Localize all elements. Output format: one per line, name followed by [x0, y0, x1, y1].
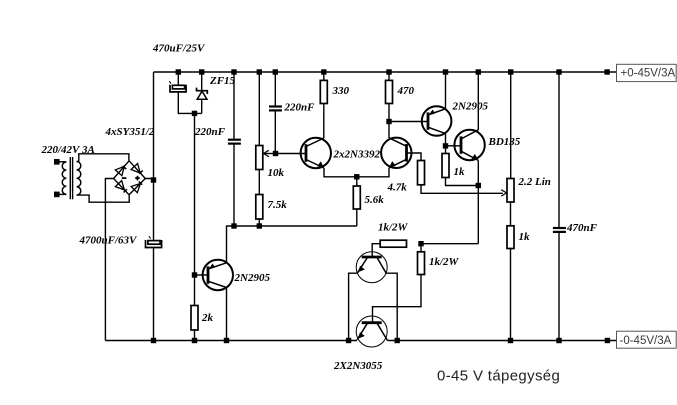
wire: bridge + node down to filter cap — [153, 180, 155, 240]
wire: 1k/2W top lead — [420, 246, 422, 251]
label 10k — [268, 167, 285, 179]
transistor Q4 BD135 — [454, 130, 484, 161]
svg-text:330: 330 — [332, 85, 350, 97]
svg-text:470nF: 470nF — [566, 222, 598, 234]
wire: Q4 emitter run to driver node — [421, 243, 478, 245]
wire: bottom rail right segment — [388, 340, 617, 342]
wire: 10k bottom to 7.5k — [258, 170, 260, 195]
node: common emitters / 5.6k top — [354, 174, 359, 179]
transistor Q1 2N3392 (left of pair) — [301, 138, 331, 168]
wire: 7.5k bottom lead — [258, 219, 260, 226]
zener diode ZF15 lead — [201, 72, 203, 91]
node: bottom rail at divider — [508, 338, 513, 343]
svg-text:2.2 Lin: 2.2 Lin — [518, 176, 551, 188]
node: bottom rail at output terminal — [605, 338, 610, 343]
wire: 470 top lead — [388, 72, 390, 80]
transformer T1 primary winding — [62, 162, 66, 194]
node: top rail at Q3 emitter — [443, 69, 448, 74]
svg-text:1k: 1k — [454, 166, 466, 178]
node: bottom rail at Q6 collector — [395, 338, 400, 343]
capacitor C4 220nF (second) top lead — [274, 72, 276, 106]
label 470 — [397, 85, 415, 97]
svg-text:1k: 1k — [519, 231, 531, 243]
capacitor C2 470uF/25V — [169, 81, 186, 92]
resistor 470 — [386, 80, 393, 103]
node: bottom rail at 2k — [192, 338, 197, 343]
wire: Q3 base from 470 tap — [389, 121, 428, 123]
wire: 2k bottom lead — [194, 330, 196, 341]
wire: Q5 collector to bottom rail — [226, 288, 228, 341]
node: top rail at output terminal — [604, 69, 609, 74]
resistor 1k/2W (horizontal) — [380, 240, 406, 247]
node: top rail at 470nF — [556, 69, 561, 74]
node: 7.5k at emitter bus — [257, 223, 262, 228]
label 470nF — [566, 222, 598, 234]
svg-text:2X2N3055: 2X2N3055 — [333, 360, 383, 372]
node: Q5 base junction on reference line — [192, 272, 197, 277]
svg-text:220nF: 220nF — [194, 126, 226, 138]
wire: Q4 base from node — [446, 145, 462, 147]
node: wiper / C4 / Q1 base junction — [273, 151, 278, 156]
wire: 5.6k bottom to emitter bus — [356, 209, 358, 226]
potentiometer 2.2 Lin body — [507, 179, 514, 203]
wire: 330 bottom to Q1 collector — [323, 104, 325, 139]
svg-text:ZF15: ZF15 — [209, 75, 236, 87]
resistor 1k (output divider) — [507, 226, 514, 249]
label 2N2905 (shunt) — [234, 272, 271, 284]
wire: 470uF bottom lead — [178, 92, 201, 114]
transistor Q3 2N2905 (driver PNP) — [422, 106, 452, 136]
transformer T1 secondary winding — [77, 162, 81, 196]
wire: 5.6k top lead — [356, 177, 358, 186]
wire: Q4 collector to top rail — [477, 72, 479, 130]
wire: bottom rail left segment — [105, 340, 357, 342]
resistor 330 — [320, 80, 327, 103]
wire: Q6 emitter to bottom rail — [349, 273, 358, 340]
svg-text:+0-45V/3A: +0-45V/3A — [621, 68, 676, 80]
node: top rail at Q4 collector — [476, 69, 481, 74]
wire: 470nF bottom lead — [558, 233, 560, 341]
svg-text:2k: 2k — [201, 312, 214, 324]
capacitor C3 220nF (left) top lead — [233, 72, 235, 139]
node: Q4 base / 1k junction — [443, 143, 448, 148]
potentiometer 2.2 Lin top lead — [510, 72, 512, 179]
node: zener/470uF junction — [192, 111, 197, 116]
wire: 1k bottom to bottom rail — [510, 249, 512, 341]
label 7.5k — [268, 199, 288, 211]
wire: 1k/2W left lead to Q6 base — [372, 244, 380, 257]
label 220/42V 3A — [41, 144, 95, 156]
transformer T1 primary terminal top — [54, 159, 60, 165]
label 2N2905 (driver) — [452, 101, 489, 113]
node: Q4 emitter / 1k junction — [476, 183, 481, 188]
svg-text:2x2N3392: 2x2N3392 — [333, 149, 381, 161]
wire: 470 bottom to Q2 collector and Q3 base tap — [388, 104, 390, 139]
svg-text:-0-45V/3A: -0-45V/3A — [620, 335, 672, 347]
bridge diode D4 (bottom-left) — [115, 181, 127, 193]
transistor Q7 2N3055 (lower) — [356, 316, 387, 347]
node: Q3 base tap on 470/Q2 collector line — [386, 119, 391, 124]
svg-text:10k: 10k — [268, 167, 285, 179]
label 1k/2W (horizontal) — [378, 222, 409, 234]
resistor 4.7k — [418, 161, 425, 185]
wire: bridge minus output down the left side — [105, 179, 113, 341]
wire: Q1 emitter down to common node — [324, 168, 389, 177]
label 2X2N3055 — [333, 360, 383, 372]
wire: top positive rail — [154, 71, 617, 73]
terminal box -0-45V/3A — [617, 331, 677, 348]
svg-text:7.5k: 7.5k — [268, 199, 288, 211]
wire: emitter bus of error amp at y=226 — [227, 226, 357, 263]
transistor Q6 2N3055 (upper) — [356, 252, 387, 283]
node: top rail at 470uF — [176, 69, 181, 74]
arrow: wiper of 2.2 Lin — [501, 190, 506, 196]
transformer T1 primary terminal bottom — [54, 192, 60, 198]
svg-text:4700uF/63V: 4700uF/63V — [79, 235, 139, 247]
wire: Q6 collector to bottom rail — [386, 273, 397, 340]
wire: filter cap to bottom rail — [153, 248, 155, 341]
bridge diode D2 (top-right) — [131, 164, 143, 174]
wire: 2.2 Lin bottom to 1k — [510, 202, 512, 226]
svg-text:BD135: BD135 — [488, 136, 521, 148]
label 2k — [201, 312, 214, 324]
label 4xSY351/2 — [105, 126, 155, 138]
bridge diode D3 (bottom-right) — [131, 181, 142, 192]
label 2x2N3392 — [333, 149, 381, 161]
bridge plus sign — [135, 176, 140, 181]
wire: 4.7k bottom to output pot wiper — [421, 185, 503, 194]
node: bottom rail at filter cap — [151, 338, 156, 343]
potentiometer 10k body — [256, 146, 263, 170]
node: top rail at 330 — [321, 69, 326, 74]
capacitor C5 470nF — [553, 228, 566, 232]
svg-text:4xSY351/2: 4xSY351/2 — [105, 126, 155, 138]
node: top rail at zener — [199, 69, 204, 74]
resistor 5.6k — [353, 186, 360, 209]
label 330 — [332, 85, 350, 97]
wire: Q5 base from reference line — [195, 274, 209, 276]
wire: left vertical from top rail to bridge + node — [153, 72, 155, 180]
wire: secondary top to bridge top vertex — [77, 154, 129, 162]
node: top rail at C4 — [273, 69, 278, 74]
label 220nF (second) — [284, 102, 316, 114]
wire: secondary bottom to bridge bottom vertex — [77, 194, 130, 202]
wire: bridge + vertex to node — [145, 179, 153, 181]
svg-text:1k/2W: 1k/2W — [429, 256, 460, 268]
label 220nF (left) — [194, 126, 226, 138]
node: driver node (1k/2W junction) — [418, 241, 423, 246]
wire: Q3 collector down to Q4 base node — [445, 134, 447, 154]
transistor Q2 2N3392 (right of pair, mirrored) — [381, 138, 411, 168]
svg-text:5.6k: 5.6k — [365, 194, 385, 206]
capacitor C5 470nF top lead — [558, 72, 560, 227]
svg-text:470: 470 — [397, 85, 415, 97]
capacitor C4 bottom lead — [274, 111, 276, 153]
capacitor C4 220nF (second) — [269, 107, 282, 111]
wire: wiper node to Q1 base — [276, 153, 307, 155]
terminal box +0-45V/3A — [617, 64, 677, 81]
resistor 2k — [191, 306, 198, 331]
capacitor C3 bottom lead — [233, 144, 235, 226]
capacitor C2 470uF/25V lead — [177, 72, 179, 85]
bridge diode D1 (top-left) — [115, 166, 126, 176]
resistor 1k (base-emitter of BD135) — [442, 154, 449, 178]
resistor 1k/2W (vertical) — [418, 252, 425, 275]
wire: primary top lead — [57, 161, 67, 163]
wire: primary bottom lead — [57, 193, 67, 195]
svg-text:2N2905: 2N2905 — [452, 101, 489, 113]
label 1k (output divider) — [519, 231, 531, 243]
label BD135 — [488, 136, 521, 148]
svg-text:1k/2W: 1k/2W — [378, 222, 409, 234]
wire: Q4 emitter down — [477, 160, 479, 243]
potentiometer 10k top lead — [258, 72, 260, 146]
wire: Q2 base to 4.7k — [407, 153, 422, 161]
node: bottom rail at Q6 emitter — [346, 338, 351, 343]
svg-text:220nF: 220nF — [284, 102, 316, 114]
transformer T1 core — [70, 157, 72, 199]
label 4700uF/63V — [79, 235, 139, 247]
svg-text:4.7k: 4.7k — [387, 182, 408, 194]
wire: zener anode to node — [201, 99, 203, 113]
label 470uF/25V — [152, 43, 206, 55]
wire: Q3 emitter to top rail — [445, 72, 447, 109]
node: top rail at 470 — [386, 69, 391, 74]
node: top rail at 2.2 Lin — [508, 69, 513, 74]
svg-text:0-45 V tápegység: 0-45 V tápegység — [437, 368, 560, 385]
wire: 1k bottom to Q4 emitter line — [446, 178, 479, 186]
node: bridge + junction — [151, 177, 156, 182]
node: top rail at C3 — [231, 69, 236, 74]
title: 0-45 V tapegyseg — [437, 368, 560, 385]
label ZF15 — [209, 75, 236, 87]
svg-text:2N2905: 2N2905 — [234, 272, 271, 284]
label 1k (BD135) — [454, 166, 466, 178]
zener diode ZF15 — [197, 88, 208, 100]
svg-text:470uF/25V: 470uF/25V — [152, 43, 206, 55]
node: top rail at 10k — [257, 69, 262, 74]
wire: 1k/2W bottom to Q7 base — [373, 275, 422, 323]
node: 220nF C3 at emitter bus — [231, 223, 236, 228]
label 1k/2W (vertical) — [429, 256, 460, 268]
capacitor C1 4700uF/63V — [146, 236, 162, 247]
capacitor C3 220nF (left) — [228, 140, 241, 144]
resistor 7.5k — [256, 195, 263, 220]
wire: 330 top lead — [323, 72, 325, 80]
bridge rectifier 4xSY351/2 diamond — [114, 161, 146, 195]
label 2.2 Lin — [518, 176, 551, 188]
bridge minus sign — [122, 177, 127, 179]
node: bottom rail at 470nF — [556, 338, 561, 343]
transistor Q5 2N2905 (shunt PNP) — [203, 260, 233, 290]
potentiometer 10k wiper arrow — [264, 150, 276, 156]
wire: reference node down to Q5 base and 2k — [194, 113, 196, 305]
node: bottom rail at Q5 collector — [224, 338, 229, 343]
label 4.7k — [387, 182, 408, 194]
label 5.6k — [365, 194, 385, 206]
